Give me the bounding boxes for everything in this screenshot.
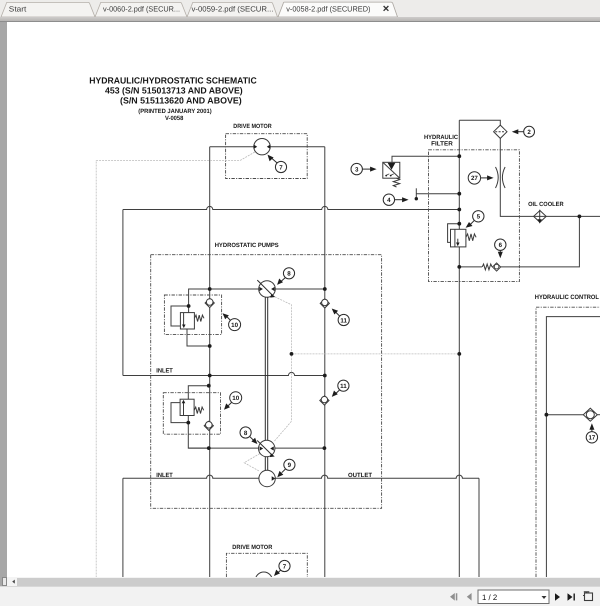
pump P2 circle: [259, 440, 275, 456]
svg-text:DRIVE MOTOR: DRIVE MOTOR: [232, 544, 273, 551]
check valve 11 upper diamond: [320, 299, 329, 308]
charge pump P3 circle: [259, 470, 275, 486]
wire outlet drop vertical: [478, 478, 480, 577]
callout ball 8 bottom: [240, 427, 251, 438]
callout 17 arrowhead: [589, 423, 594, 430]
callout 8 top leader: [281, 278, 285, 282]
callout 4 arrowhead: [402, 197, 409, 202]
wire inlet upper with hop over gray drain: [123, 372, 325, 375]
junction node cooler-out: [578, 215, 582, 219]
sensor 3 spring: [393, 178, 399, 187]
wire cooler return loop: [501, 216, 580, 267]
callout ball 5: [473, 211, 484, 222]
drive motor M top circle: [254, 139, 270, 155]
svg-text:9: 9: [288, 462, 292, 469]
pump P2 swashplate arrowhead: [270, 453, 275, 457]
pump P2 swashplate arrow: [257, 441, 272, 456]
check valve (on left drop, upper) diamond: [205, 298, 214, 307]
callout ball 17: [586, 432, 597, 443]
callout 3 leader: [362, 168, 371, 170]
junction node drain-pump: [290, 352, 294, 356]
wire control valve out: [597, 414, 600, 416]
check valve 6 diamond and ball: [493, 263, 501, 271]
callout ball 10 top: [229, 319, 241, 331]
callout ball 27: [468, 172, 480, 184]
junction node drain-filter: [457, 352, 461, 356]
callout 2 arrowhead: [512, 129, 519, 134]
orifice 27 arcs: [496, 167, 499, 188]
wire left vertical upper segment: [122, 210, 124, 376]
svg-text:HYDROSTATIC PUMPS: HYDROSTATIC PUMPS: [215, 242, 279, 249]
junction node pump8top-leftdrop: [208, 287, 212, 291]
wire filter diamond to cooler corner: [500, 138, 600, 216]
callout 11 top leader: [336, 312, 340, 316]
contact node item4: [415, 197, 418, 200]
callout ball 9: [284, 459, 295, 470]
wire pump8 bottom line: [188, 447, 324, 449]
wire control valve feed: [546, 414, 583, 416]
wire valve10b outlet branch: [188, 416, 209, 449]
svg-text:HYDRAULIC/HYDROSTATIC SCHEMATI: HYDRAULIC/HYDROSTATIC SCHEMATIC: [89, 76, 257, 86]
callout 8 bottom arrowhead: [251, 438, 257, 444]
callout 9 arrowhead: [277, 471, 283, 477]
svg-text:INLET: INLET: [156, 368, 173, 375]
pump P2 port triangles: [260, 446, 264, 450]
svg-text:4: 4: [387, 197, 391, 204]
enclosure hydrostatic pumps: [151, 255, 382, 509]
pump P1 circle: [259, 281, 276, 298]
pump P1 swashplate arrowhead: [270, 294, 275, 298]
junction node filter-return: [457, 208, 461, 212]
svg-text:10: 10: [232, 395, 239, 402]
callout 6 leader: [499, 250, 501, 253]
wire check6 spring feed: [459, 266, 482, 268]
wire motor right drop vertical: [324, 147, 326, 577]
wire inlet lower with hops: [123, 475, 479, 478]
relief valve 5 arrow head: [456, 243, 460, 247]
callout 10 top leader: [227, 317, 231, 321]
callout 7 top leader: [272, 159, 277, 164]
relief valve 5 spring: [466, 234, 476, 241]
svg-text:DRIVE MOTOR: DRIVE MOTOR: [233, 123, 272, 130]
svg-text:5: 5: [477, 214, 481, 221]
relief valve 10 top body: [180, 313, 194, 329]
drain link to filter return (gray): [292, 353, 460, 355]
check valve (on left drop, lower) diamond: [204, 421, 213, 430]
wire item3 feed: [392, 156, 459, 162]
callout 10 bottom leader: [228, 402, 232, 406]
callout 9 leader: [282, 469, 286, 473]
enclosure drive motor top: [226, 134, 308, 179]
callout ball 11 bottom: [338, 380, 349, 391]
sensor 3 body: [383, 162, 400, 178]
svg-text:FILTER: FILTER: [431, 141, 453, 148]
callout 8 top arrowhead: [277, 279, 283, 285]
pump shaft lower (double line): [265, 457, 267, 471]
wire item4 pin: [415, 188, 417, 197]
svg-text:10: 10: [231, 322, 238, 329]
pump shaft upper (double line): [265, 297, 267, 440]
wire valve10b pilot loop: [171, 403, 188, 423]
junction node valve5-top: [457, 222, 461, 226]
callout 11 bottom leader: [336, 390, 340, 394]
svg-text:v-0059-2.pdf (SECUR...: v-0059-2.pdf (SECUR...: [192, 5, 274, 14]
wire valve10b inlet branch: [188, 386, 209, 400]
relief valve 10 top spring: [194, 315, 204, 321]
svg-text:8: 8: [287, 271, 291, 278]
svg-text:11: 11: [340, 317, 347, 324]
wire horizontal y209 with hops: [123, 206, 459, 209]
svg-text:(S/N 515113620 AND ABOVE): (S/N 515113620 AND ABOVE): [120, 96, 242, 106]
wire filter top corner to diamond: [459, 120, 500, 125]
enclosure relief valve 10 top: [164, 295, 221, 334]
svg-text:11: 11: [340, 383, 347, 390]
hydraulic filter F1 diamond: [494, 125, 507, 138]
callout ball 6: [495, 239, 506, 250]
relief valve 5 body: [451, 229, 466, 247]
svg-text:7: 7: [279, 164, 283, 171]
junction node control-feed: [545, 413, 549, 417]
callout ball 8 top: [283, 268, 294, 279]
callout balls with leader arrows: [227, 132, 592, 573]
junction node pump8top-rightdrop: [323, 287, 327, 291]
svg-text:Start: Start: [9, 5, 27, 14]
oil cooler diamond: [534, 211, 547, 223]
callout 10 bottom arrowhead: [224, 403, 230, 409]
callout 3 arrowhead: [370, 167, 377, 172]
enclosure hydraulic filter: [429, 150, 520, 282]
callout 11 bottom arrowhead: [332, 391, 338, 397]
check valve 6 spring: [482, 264, 492, 270]
wire item4 link: [416, 193, 459, 195]
callout 10 top arrowhead: [223, 313, 229, 319]
drive motor M bottom circle: [255, 572, 272, 589]
sensor 3 feed arrow head: [388, 163, 396, 170]
svg-text:3: 3: [355, 166, 359, 173]
svg-text:v-0060-2.pdf (SECUR...: v-0060-2.pdf (SECUR...: [103, 5, 180, 14]
junction node valve10b-branch: [207, 384, 211, 388]
callout ball 2: [524, 126, 535, 137]
junction node valve10t-pilot: [187, 304, 191, 308]
callout 2 leader: [516, 131, 524, 133]
svg-text:7: 7: [283, 563, 287, 570]
svg-text:1 / 2: 1 / 2: [482, 593, 497, 602]
sensor 3 inner mark dots: [385, 175, 387, 177]
callout 8 bottom leader: [250, 437, 254, 440]
callout 5 leader: [470, 220, 475, 225]
svg-text:V-0058: V-0058: [165, 115, 184, 122]
callout ball 11 top: [338, 314, 349, 325]
relief valve 10 bottom body: [180, 399, 194, 415]
callout ball 7 top: [275, 161, 286, 172]
callout 11 top arrowhead: [332, 309, 338, 315]
drain line from top drive motor (gray): [96, 152, 255, 577]
junction node pump8bot-rightdrop: [323, 446, 327, 450]
junction node valve10t-outlet: [208, 344, 212, 348]
relief valve 10 top arrow head: [182, 325, 186, 329]
callout 4 leader: [395, 199, 404, 201]
callout 27 arrowhead: [487, 175, 494, 180]
wire motor left drop vertical: [209, 147, 211, 577]
callout ball 10 bottom: [230, 392, 242, 404]
wire motor top left horizontal: [210, 146, 254, 148]
callout 5 arrowhead: [466, 222, 473, 228]
junction node valve10b-pilot: [186, 421, 190, 425]
callout 6 arrowhead: [498, 252, 503, 258]
relief valve 10 bottom arrow head: [182, 400, 186, 404]
wire valve10t inlet branch: [189, 289, 210, 313]
pump P1 swashplate arrow: [257, 280, 273, 296]
pump P1 port triangles: [259, 287, 263, 291]
enclosure drive motor bottom: [226, 553, 307, 577]
relief valve 10 top arrow: [183, 313, 185, 326]
svg-text:v-0058-2.pdf (SECURED): v-0058-2.pdf (SECURED): [286, 5, 371, 14]
junction node filter-item3: [457, 154, 461, 158]
enclosure relief valve 10 bottom: [163, 393, 220, 435]
junction node inlet-rightdrop: [323, 374, 327, 378]
pump case bracket V (gray): [244, 454, 260, 472]
wire valve10t outlet branch: [187, 329, 210, 346]
callout 17 leader: [591, 428, 593, 431]
wire valve10t pilot loop: [171, 306, 189, 326]
drain line pump 8 top to pump 8 bottom (gray): [274, 297, 292, 442]
charge pump port triangle: [272, 476, 276, 480]
svg-text:8: 8: [244, 430, 248, 437]
svg-text:27: 27: [471, 175, 478, 182]
callout 7 top arrowhead: [268, 155, 274, 162]
junction node valve5-bottom: [457, 265, 461, 269]
callout 27 leader: [481, 177, 489, 179]
sensor 3 inner marks: [386, 174, 394, 176]
relief valve 5 pilot loop: [448, 224, 460, 243]
junction node filter-item4: [457, 192, 461, 196]
svg-text:453 (S/N 515013713 AND ABOVE): 453 (S/N 515013713 AND ABOVE): [105, 86, 243, 96]
svg-text:(PRINTED JANUARY 2001): (PRINTED JANUARY 2001): [138, 108, 211, 115]
check valve 17 diamond: [583, 408, 597, 421]
callout 7 bottom leader: [278, 570, 281, 573]
wire motor top right horizontal: [270, 146, 325, 148]
wire pump8 top line: [189, 288, 325, 290]
oil cooler arrow head: [538, 219, 542, 223]
junction node valve10b-outlet: [207, 446, 211, 450]
wire left vertical lower segment: [122, 478, 124, 577]
svg-text:HYDRAULIC CONTROL VALVE: HYDRAULIC CONTROL VALVE: [535, 294, 600, 301]
junction node inlet-leftdrop: [208, 374, 212, 378]
svg-text:2: 2: [527, 129, 531, 136]
check valve 11 lower diamond: [320, 396, 329, 405]
svg-text:OIL COOLER: OIL COOLER: [528, 201, 564, 208]
svg-text:6: 6: [499, 242, 503, 249]
svg-text:17: 17: [588, 435, 595, 442]
enclosure hydraulic control valve: [536, 307, 600, 577]
wire filter main vertical: [458, 120, 460, 577]
relief valve 10 bottom spring: [194, 407, 204, 413]
motor top port triangles: [254, 145, 258, 149]
callout 7 bottom arrowhead: [274, 570, 280, 576]
callout ball 4: [383, 194, 394, 205]
relief valve 10 bottom arrow: [183, 403, 185, 416]
wire control inner box: [546, 317, 600, 577]
relief valve 5 inner left edge: [454, 229, 456, 247]
callout ball 3: [351, 163, 362, 174]
relief valve 5 arrow: [457, 239, 459, 244]
callout ball 7 bottom: [279, 560, 290, 571]
